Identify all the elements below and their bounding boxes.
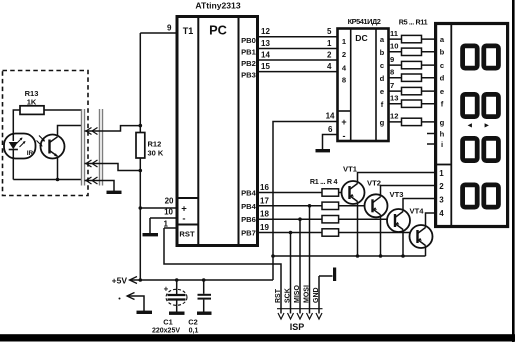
ground decoder [316, 149, 331, 152]
node MOSI tap [308, 204, 312, 208]
wire R13 left to LED anode [13, 110, 20, 141]
wire pin 17 [258, 205, 323, 207]
node rail join [139, 278, 143, 282]
svg-text:R12: R12 [148, 140, 162, 149]
svg-text:220x25V: 220x25V [152, 328, 180, 335]
svg-text:VT4: VT4 [410, 207, 425, 216]
digit pair 2 [463, 94, 499, 116]
wire R2 to VT2 base [339, 205, 366, 207]
digit pair 1 [463, 46, 499, 68]
phototransistor [37, 135, 65, 159]
node VT1 emitter rail [356, 254, 360, 258]
pin GND arrow [316, 313, 322, 319]
node C2 junction [202, 278, 206, 282]
pin RST arrow [278, 313, 284, 319]
border bottom [0, 334, 515, 341]
svg-text:VT3: VT3 [390, 190, 404, 199]
sensor dashed box [3, 71, 89, 196]
resistor R10 [402, 100, 422, 107]
svg-text:ISP: ISP [290, 322, 305, 332]
wire VT4 collector [426, 213, 436, 228]
svg-text:c: c [380, 61, 384, 70]
node SCK tap [289, 231, 293, 235]
wire R13 right to cable [44, 109, 82, 111]
ground ISP [319, 268, 335, 282]
wire ISP header line [277, 308, 323, 310]
node +5V terminal [112, 276, 137, 286]
wire decoder pin 14 plus net [273, 122, 338, 281]
svg-text:2: 2 [342, 50, 346, 59]
svg-text:DC: DC [355, 33, 367, 43]
wire pin 12 [258, 36, 338, 38]
wire segment c [389, 64, 435, 66]
svg-text:PB2: PB2 [241, 59, 256, 68]
resistor R8 [402, 74, 422, 81]
resistor R4 [322, 229, 339, 236]
pin MISO arrow [297, 313, 303, 319]
svg-text:PB4: PB4 [241, 189, 257, 198]
wire +5V rail [130, 279, 274, 281]
svg-text:+: + [164, 285, 169, 294]
LED IR emitter [4, 134, 36, 159]
svg-text:14: 14 [326, 112, 335, 121]
svg-text:VT1: VT1 [343, 165, 358, 174]
svg-text:R1 ... R 4: R1 ... R 4 [310, 177, 338, 186]
node supply join [139, 169, 143, 173]
svg-text:RST: RST [179, 230, 195, 239]
svg-text:1: 1 [439, 169, 444, 178]
svg-text:SCK: SCK [285, 288, 292, 303]
svg-text:КР541ИД2: КР541ИД2 [348, 17, 381, 26]
wire PT emitter [57, 157, 59, 180]
svg-text:T1: T1 [183, 26, 194, 36]
svg-text:f: f [441, 100, 444, 109]
svg-text:4: 4 [327, 62, 332, 71]
resistor R11 [402, 118, 422, 125]
svg-text:+: + [341, 117, 346, 127]
wire VT3 emitter [402, 230, 404, 257]
svg-text:a: a [440, 35, 445, 44]
wire segment b [389, 51, 435, 53]
wire pin9 net vertical [139, 33, 141, 133]
svg-text:b: b [380, 48, 385, 57]
wire emitter rail [273, 255, 426, 257]
svg-text:PB6: PB6 [241, 215, 256, 224]
svg-text:MISO: MISO [294, 285, 301, 303]
wire pin 16 [258, 192, 323, 194]
resistor R13 [20, 89, 44, 114]
node C1 junction [175, 278, 179, 282]
resistor R1 [322, 189, 339, 196]
svg-text:d: d [380, 74, 385, 83]
wire segment g [389, 121, 435, 123]
resistor R12 [136, 133, 164, 159]
svg-text:14: 14 [261, 50, 270, 59]
wire ISP MISO [299, 219, 301, 313]
svg-text:15: 15 [261, 62, 270, 71]
svg-text:PB4: PB4 [241, 202, 257, 211]
capacitor C2 [188, 280, 211, 335]
svg-text:-: - [182, 214, 185, 225]
svg-text:13: 13 [261, 39, 270, 48]
wire R1 to VT1 base [339, 192, 343, 194]
svg-text:1: 1 [164, 220, 169, 229]
svg-text:6: 6 [328, 125, 333, 134]
svg-text:30 K: 30 K [148, 149, 164, 158]
svg-text:7: 7 [390, 81, 394, 90]
svg-text:16: 16 [260, 183, 269, 192]
node VT3 emitter rail [401, 254, 405, 258]
wire segment h stub [427, 133, 434, 135]
svg-text:c: c [440, 61, 444, 70]
svg-text:e: e [440, 87, 444, 96]
wire RST net [164, 228, 281, 314]
svg-text:1: 1 [342, 37, 347, 46]
wire PT collector [58, 126, 82, 137]
cable twist chevrons row 3 [86, 177, 98, 184]
svg-text:e: e [380, 87, 384, 96]
svg-text:5: 5 [327, 27, 332, 36]
wire pin 9 [140, 32, 176, 34]
resistor R2 [322, 202, 339, 209]
cable twist chevrons row 2 [86, 160, 98, 167]
wire ISP MOSI [309, 206, 311, 314]
resistor R7 [402, 61, 422, 68]
svg-text:8: 8 [342, 76, 346, 85]
wire segment a [389, 38, 435, 40]
digit pair 4 [463, 185, 499, 207]
svg-text:12: 12 [390, 112, 398, 121]
svg-text:C2: C2 [188, 318, 197, 327]
svg-text:i: i [441, 140, 443, 149]
wire pin 20 [140, 207, 177, 209]
resistor R6 [402, 48, 422, 55]
svg-text:PC: PC [209, 23, 227, 38]
wire VT3 collector [403, 199, 436, 212]
ground pin10 [143, 218, 159, 235]
svg-text:8: 8 [390, 68, 394, 77]
wire cable ground core [85, 181, 115, 192]
wire segment i stub [427, 143, 434, 145]
wire pin 13 [258, 48, 338, 50]
transistor VT2 [365, 179, 388, 218]
svg-text:+5V: +5V [112, 276, 128, 286]
svg-text:18: 18 [260, 210, 269, 219]
wire pin 15 [258, 71, 338, 73]
svg-text:g: g [380, 118, 385, 127]
transistor VT3 [387, 190, 410, 232]
pin SCK arrow [288, 313, 294, 319]
node VT2 emitter rail [379, 254, 383, 258]
ground cable [107, 191, 122, 194]
wire segment e [389, 90, 435, 92]
svg-text:10: 10 [390, 42, 398, 51]
svg-text:MOSI: MOSI [304, 285, 311, 303]
svg-text:ATtiny2313: ATtiny2313 [195, 1, 240, 11]
svg-text:PB7: PB7 [241, 229, 256, 238]
wire cable supply core [85, 164, 141, 171]
transistor VT1 [342, 165, 365, 205]
svg-text:f: f [381, 100, 384, 109]
wire pin 10 [150, 217, 177, 219]
wire pin 1 RST [164, 227, 177, 229]
resistor R5 [402, 35, 422, 42]
svg-text:2: 2 [327, 50, 332, 59]
svg-text:PB1: PB1 [241, 48, 257, 57]
svg-text:20: 20 [165, 197, 174, 206]
svg-text:-: - [343, 131, 346, 141]
svg-text:9: 9 [390, 55, 394, 64]
wire pin 18 [258, 218, 323, 220]
digit pair 3 [463, 138, 499, 160]
svg-text:b: b [440, 48, 445, 57]
svg-text:GND: GND [313, 287, 320, 303]
svg-text:10: 10 [164, 208, 173, 217]
node MISO tap [298, 217, 302, 221]
wire VT2 collector [381, 186, 436, 197]
svg-text:C1: C1 [163, 318, 172, 327]
wire R4 to VT4 base [339, 232, 411, 234]
cable twist chevrons row 1 [86, 128, 98, 135]
node gnd terminal arrow [119, 293, 153, 313]
pin MOSI arrow [307, 313, 313, 319]
cable screen lines [82, 109, 103, 186]
wire VT4 emitter [425, 246, 427, 257]
wire segment f [389, 103, 435, 105]
svg-text:12: 12 [261, 27, 270, 36]
svg-text:h: h [440, 129, 445, 138]
wire VT2 emitter [380, 215, 382, 256]
resistor R9 [402, 87, 422, 94]
wire cable signal core [85, 126, 141, 131]
wire decoder pin 6 [323, 135, 338, 150]
wire ISP SCK [290, 233, 292, 314]
node signal join [139, 124, 143, 128]
node pin20 join [139, 206, 143, 210]
display block HG1 [436, 24, 508, 227]
svg-text:2: 2 [439, 182, 444, 191]
wire pin 19 [258, 232, 323, 234]
svg-text:13: 13 [390, 94, 398, 103]
svg-text:19: 19 [260, 223, 269, 232]
wire LED cathode down [12, 159, 14, 180]
svg-text:RST: RST [275, 288, 282, 303]
wire sensor ground bottom [13, 179, 81, 181]
wire R3 to VT3 base [339, 218, 388, 220]
wire VT1 collector [358, 173, 436, 184]
svg-text:1: 1 [327, 39, 332, 48]
op-amp U1 ATtiny2313 box [177, 1, 258, 246]
wire ISP GND [318, 276, 320, 314]
wire pin 14 [258, 59, 338, 61]
svg-text:VT2: VT2 [367, 179, 381, 188]
svg-text:4: 4 [342, 64, 347, 73]
svg-text:PB3: PB3 [241, 71, 256, 80]
svg-text:11: 11 [390, 29, 399, 38]
wire segment d [389, 77, 435, 79]
border right [512, 0, 515, 342]
colon arrows [468, 123, 489, 127]
transistor VT4 [410, 207, 433, 249]
svg-text:4: 4 [439, 209, 444, 218]
wire VT1 emitter [357, 202, 359, 257]
capacitor C1 [152, 280, 187, 335]
svg-text:3: 3 [439, 196, 444, 205]
decoder U2 KR541ID2 [338, 17, 389, 141]
svg-text:17: 17 [260, 196, 269, 205]
svg-text:9: 9 [167, 24, 172, 33]
svg-text:PB0: PB0 [241, 36, 256, 45]
svg-text:IR: IR [27, 150, 34, 157]
resistor R3 [322, 216, 339, 223]
svg-text:g: g [440, 118, 445, 127]
svg-text:R5 ... R11: R5 ... R11 [399, 17, 428, 26]
svg-text:0,1: 0,1 [189, 328, 199, 335]
node rail-plus junction [271, 254, 275, 258]
node PT emitter junction [56, 178, 60, 182]
wire R12 to +5V rail [139, 158, 141, 280]
svg-text:d: d [440, 74, 445, 83]
svg-text:a: a [380, 35, 385, 44]
